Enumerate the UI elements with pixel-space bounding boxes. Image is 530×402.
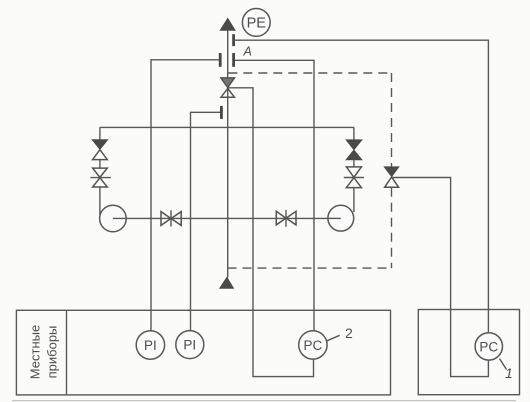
tap bar (line to PI 2) (220, 106, 223, 119)
wire (99, 187, 101, 215)
impulse line to PC 2 top (235, 60, 314, 331)
middle impulse line tail into right vessel (328, 217, 341, 219)
valve on dashed line (top filled) (384, 167, 399, 187)
svg-text:2: 2 (345, 325, 353, 341)
wire (353, 160, 355, 167)
main impulse pipe (vertical) (227, 30, 229, 277)
equalizing valve 2 (horizontal bowtie with stem) (276, 210, 296, 227)
impulse line to PI 2 (191, 112, 221, 330)
tap bar right (line to PC 2) (232, 53, 235, 67)
signal line from dashed valve to PC 1 bottom (loop) (392, 178, 488, 377)
local instruments box (16, 310, 390, 395)
leader line for label 2 (327, 335, 340, 341)
left valve 1 (top filled) (92, 140, 107, 160)
svg-text:Местные: Местные (28, 325, 43, 379)
signal line from tap A to PC 1 (235, 40, 488, 333)
svg-text:PE: PE (247, 16, 267, 32)
svg-text:PC: PC (479, 339, 498, 354)
dashed boundary right lower (391, 188, 393, 268)
instrument PC 2 (299, 331, 327, 359)
svg-text:PI: PI (183, 337, 196, 352)
separating vessel right (328, 205, 354, 231)
instrument PI 2 (176, 331, 204, 359)
right branch pipe (353, 127, 355, 139)
remote box (418, 310, 519, 395)
equalizing valve 1 (horizontal bowtie with stem) (161, 210, 181, 226)
svg-text:1: 1 (505, 365, 513, 381)
dashed boundary top (228, 72, 391, 74)
separating vessel left (100, 205, 127, 232)
tap bar left (line to PI 1) (219, 53, 222, 67)
middle impulse line (113, 217, 341, 219)
dashed boundary right upper (391, 73, 393, 167)
line from main valve outlet to PC 2 bottom (loop) (228, 88, 314, 377)
scan artifact line at bottom (12, 400, 516, 402)
drain arrow at bottom of main pipe (220, 277, 234, 288)
instrument PI 1 (136, 331, 164, 359)
wire (353, 188, 355, 212)
right valve 2 (open with crossbar) (344, 167, 364, 188)
leader line for label 1 (500, 359, 507, 370)
valve on main pipe (bowtie, smudged dark top) (221, 78, 235, 97)
header line (horizontal manifold) (100, 126, 354, 128)
tap bar A (232, 34, 235, 46)
left branch pipe (99, 127, 101, 139)
dashed boundary bottom (228, 267, 392, 269)
right valve 1 (filled bowtie) (346, 140, 362, 160)
left valve 2 (open with crossbar) (90, 168, 111, 187)
instrument PC 1 (475, 333, 502, 360)
svg-text:приборы: приборы (45, 326, 60, 379)
svg-text:PC: PC (304, 338, 323, 353)
instrument PE (242, 9, 270, 37)
wire (99, 160, 101, 169)
local instruments box divider (66, 310, 68, 395)
impulse line to PI 1 (151, 60, 219, 331)
svg-text:PI: PI (144, 338, 157, 353)
svg-text:A: A (243, 44, 252, 58)
vent arrow (to atmosphere) (220, 19, 235, 31)
